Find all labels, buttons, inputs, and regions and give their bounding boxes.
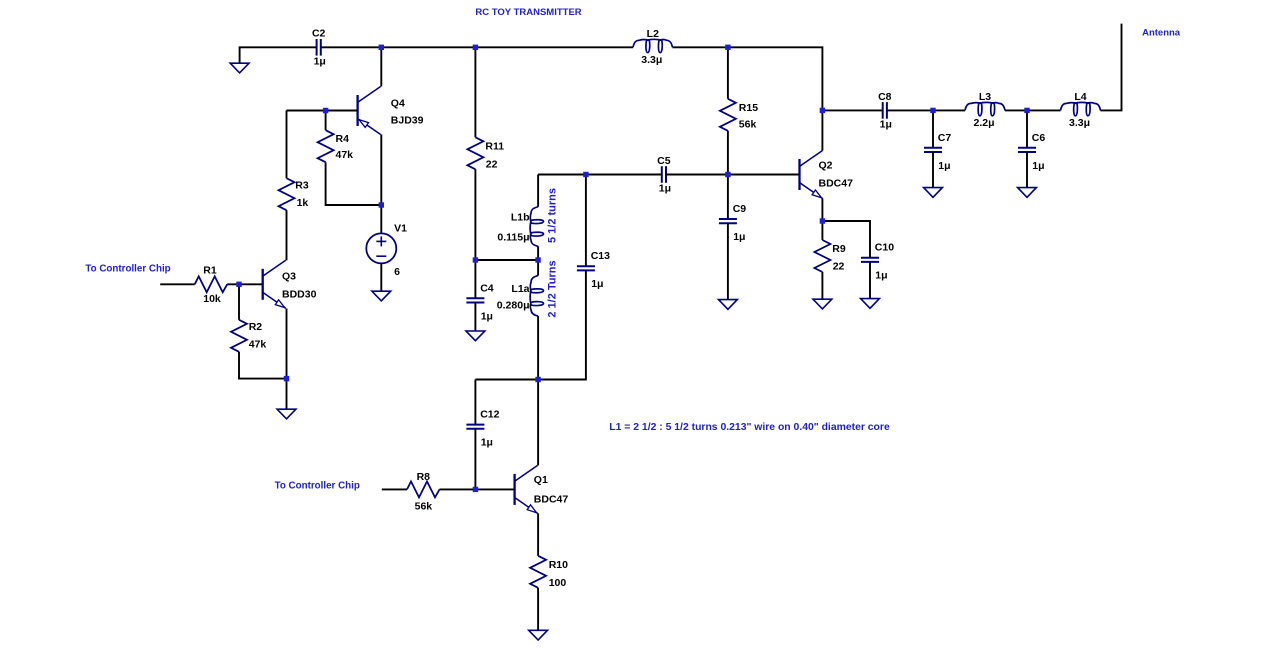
- wire to C9: [727, 175, 729, 220]
- ground R9: [813, 299, 832, 309]
- wire R2 to emitter node: [239, 352, 287, 379]
- svg-text:3.3μ: 3.3μ: [641, 54, 662, 66]
- svg-text:1μ: 1μ: [481, 437, 493, 449]
- svg-text:BJD39: BJD39: [391, 115, 424, 127]
- capacitor C7: [924, 147, 942, 149]
- svg-text:BDC47: BDC47: [534, 494, 569, 506]
- wire C2 to L2: [321, 46, 633, 48]
- svg-text:22: 22: [486, 158, 498, 170]
- svg-text:1μ: 1μ: [938, 160, 950, 172]
- transistor Q1: [513, 474, 515, 505]
- inductor L1b: [530, 207, 543, 247]
- svg-text:C7: C7: [938, 132, 952, 144]
- wire rail left to C2: [240, 47, 317, 63]
- wire L1b to L1a: [537, 246, 539, 275]
- wire C9 to ground: [727, 223, 729, 299]
- node node C6 top: [1024, 108, 1029, 113]
- svg-text:47k: 47k: [336, 149, 354, 161]
- svg-text:10k: 10k: [203, 293, 221, 305]
- transistor Q4: [356, 95, 358, 126]
- ground top-left: [230, 63, 249, 73]
- capacitor C4: [466, 297, 484, 299]
- capacitor C9: [719, 218, 737, 220]
- svg-text:C4: C4: [480, 282, 494, 294]
- wire to R3: [286, 111, 288, 179]
- svg-text:R4: R4: [336, 133, 350, 145]
- svg-text:C6: C6: [1032, 132, 1046, 144]
- wire input to R1: [160, 283, 195, 285]
- voltage source V1: [366, 233, 396, 263]
- node rail node C: [725, 45, 730, 50]
- transistor Q2: [798, 159, 800, 190]
- wire down to C12: [474, 380, 476, 425]
- inductor L1a: [530, 276, 543, 317]
- svg-text:R3: R3: [295, 179, 309, 191]
- wire Q2 collector up: [821, 110, 823, 150]
- svg-text:L1b: L1b: [511, 212, 530, 224]
- wire to C10: [822, 221, 870, 258]
- wire R11 to node: [474, 169, 476, 260]
- resistor R8: [407, 481, 440, 497]
- inductor L3: [965, 102, 1005, 115]
- svg-text:C8: C8: [878, 91, 892, 103]
- wire R9 to ground: [821, 272, 823, 299]
- node node L1 tap: [535, 257, 540, 262]
- wire Q1 emitter to R10: [537, 513, 539, 555]
- svg-text:1μ: 1μ: [733, 231, 745, 243]
- svg-text:To Controller Chip: To Controller Chip: [85, 263, 170, 274]
- wire node to C4: [474, 260, 476, 298]
- svg-text:C2: C2: [312, 28, 326, 40]
- wire to R9: [821, 221, 823, 240]
- wire R1 to Q3 base: [227, 283, 263, 285]
- svg-text:1μ: 1μ: [481, 310, 493, 322]
- wire rail to R15: [727, 47, 729, 99]
- svg-text:R8: R8: [417, 471, 431, 483]
- svg-text:1μ: 1μ: [1032, 160, 1044, 172]
- wire C8 to L3: [887, 109, 965, 111]
- node Q4 base node: [323, 108, 328, 113]
- transistor Q3: [262, 269, 264, 300]
- node node Q1 base: [473, 487, 478, 492]
- resistor R11: [467, 137, 483, 169]
- wire R4 to node: [326, 162, 382, 205]
- ground V1: [372, 291, 391, 301]
- wire Q3 emitter down: [286, 309, 288, 379]
- svg-text:L1 = 2 1/2 : 5 1/2 turns 0.213: L1 = 2 1/2 : 5 1/2 turns 0.213" wire on …: [609, 422, 890, 433]
- ground C9: [719, 300, 738, 310]
- svg-text:1μ: 1μ: [875, 270, 887, 282]
- ground C7: [924, 188, 943, 198]
- svg-text:56k: 56k: [415, 500, 433, 512]
- svg-text:3.3μ: 3.3μ: [1069, 117, 1090, 129]
- svg-text:R10: R10: [549, 559, 568, 571]
- svg-text:R9: R9: [832, 243, 846, 255]
- wire C6 to ground: [1026, 152, 1028, 188]
- wire osc node to C12: [475, 379, 538, 381]
- svg-text:47k: 47k: [249, 339, 267, 351]
- wire to C8: [822, 109, 882, 111]
- inductor L4: [1061, 102, 1101, 115]
- node node C9 top: [725, 172, 730, 177]
- svg-text:C12: C12: [480, 409, 499, 421]
- wire C4 to ground: [474, 303, 476, 332]
- svg-text:1μ: 1μ: [880, 119, 892, 131]
- svg-text:Q1: Q1: [534, 474, 548, 486]
- wire C7 to ground: [932, 152, 934, 188]
- wire to C13: [585, 175, 587, 267]
- ground C4: [466, 331, 485, 341]
- wire R8 to Q1 base: [440, 488, 515, 490]
- wire L1a to node: [537, 316, 539, 379]
- svg-text:C5: C5: [657, 155, 671, 167]
- wire C10 to ground: [869, 262, 871, 299]
- node node C13 top: [583, 172, 588, 177]
- wire input2 to R8: [382, 488, 407, 490]
- svg-text:0.115μ: 0.115μ: [497, 232, 529, 244]
- svg-text:1μ: 1μ: [314, 56, 326, 68]
- svg-text:1μ: 1μ: [659, 183, 671, 195]
- wire stub: [286, 259, 288, 261]
- ground R10: [529, 630, 548, 640]
- capacitor C6: [1018, 147, 1036, 149]
- capacitor C10: [861, 257, 879, 259]
- wire V1 to ground: [380, 263, 382, 291]
- svg-text:C10: C10: [875, 242, 894, 254]
- wire C5 to Q2 base: [666, 174, 800, 176]
- inductor L2: [633, 39, 673, 52]
- svg-text:R2: R2: [249, 321, 263, 333]
- svg-text:R15: R15: [739, 102, 758, 114]
- svg-text:5 1/2 turns: 5 1/2 turns: [547, 188, 559, 243]
- ground C10: [861, 299, 880, 309]
- svg-text:RC TOY TRANSMITTER: RC TOY TRANSMITTER: [475, 7, 581, 18]
- svg-text:L4: L4: [1074, 91, 1086, 103]
- wire to R2: [238, 284, 240, 320]
- wire node to V1: [380, 205, 382, 233]
- svg-text:R1: R1: [203, 265, 217, 277]
- wire L1b top to C5: [538, 174, 662, 176]
- svg-text:0.280μ: 0.280μ: [497, 300, 530, 312]
- resistor R15: [720, 99, 736, 131]
- svg-text:Q3: Q3: [282, 271, 296, 283]
- svg-text:C9: C9: [733, 203, 747, 215]
- wire C12 to Q1 base node: [474, 429, 476, 490]
- svg-text:L2: L2: [647, 28, 659, 40]
- svg-text:BDD30: BDD30: [282, 289, 317, 301]
- svg-text:2 1/2 Turns: 2 1/2 Turns: [547, 260, 559, 317]
- svg-text:22: 22: [833, 261, 845, 273]
- node rail node B: [473, 45, 478, 50]
- wire antenna: [1101, 24, 1122, 111]
- svg-text:100: 100: [549, 577, 567, 589]
- svg-text:L1a: L1a: [511, 283, 529, 295]
- svg-text:BDC47: BDC47: [819, 178, 854, 190]
- resistor R3: [279, 178, 295, 210]
- svg-text:R11: R11: [485, 141, 504, 153]
- svg-text:6: 6: [394, 266, 400, 278]
- wire rail to R11: [474, 47, 476, 137]
- resistor R9: [814, 240, 830, 272]
- node node oscillator: [535, 377, 540, 382]
- svg-text:Q4: Q4: [391, 98, 405, 110]
- wire to C7: [932, 110, 934, 147]
- svg-text:L3: L3: [979, 91, 991, 103]
- node node V1 top: [379, 202, 384, 207]
- svg-text:Antenna: Antenna: [1142, 28, 1181, 39]
- wire L3 to L4: [1005, 109, 1061, 111]
- capacitor C5: [661, 166, 663, 183]
- node node Q3 base: [236, 282, 241, 287]
- svg-text:1μ: 1μ: [591, 278, 603, 290]
- wire L2 to Q2 collector corner: [673, 47, 823, 110]
- wire Q1 collector up: [537, 380, 539, 466]
- capacitor C13: [577, 265, 595, 267]
- wire C4 node to L1 tap: [475, 259, 538, 261]
- svg-text:Q2: Q2: [819, 160, 833, 172]
- svg-text:V1: V1: [394, 223, 407, 235]
- svg-text:2.2μ: 2.2μ: [973, 117, 994, 129]
- svg-text:C13: C13: [591, 250, 610, 262]
- wire Q4 base: [287, 110, 358, 112]
- node node C4 top: [473, 257, 478, 262]
- capacitor C2: [316, 39, 318, 56]
- resistor R10: [530, 556, 546, 588]
- node node Q2 emitter: [820, 218, 825, 223]
- wire Q4 emitter to node: [380, 135, 382, 205]
- wire C13 to oscillator node: [538, 270, 586, 379]
- wire R15 to base row: [727, 131, 729, 175]
- ground C6: [1018, 188, 1037, 198]
- wire to ground: [286, 379, 288, 410]
- wire Q4 collector: [380, 47, 382, 86]
- node node RF out: [820, 108, 825, 113]
- resistor R2: [231, 320, 247, 352]
- resistor R1: [195, 276, 228, 292]
- svg-text:1k: 1k: [297, 197, 309, 209]
- svg-text:To Controller Chip: To Controller Chip: [275, 481, 360, 492]
- node node C7 top: [930, 108, 935, 113]
- wire R3 to Q3 collector: [286, 210, 288, 260]
- wire to C6: [1026, 110, 1028, 147]
- wire tap row to L1b: [537, 175, 539, 207]
- capacitor C12: [466, 424, 484, 426]
- wire R10 to ground: [537, 588, 539, 631]
- wire Q2 emitter down: [821, 199, 823, 222]
- svg-text:56k: 56k: [739, 118, 757, 130]
- node rail node A: [379, 45, 384, 50]
- capacitor C8: [882, 102, 884, 119]
- wire to R4: [325, 111, 327, 131]
- resistor R4: [318, 130, 334, 162]
- node node Q3 emitter: [284, 376, 289, 381]
- ground Q3: [277, 409, 296, 419]
